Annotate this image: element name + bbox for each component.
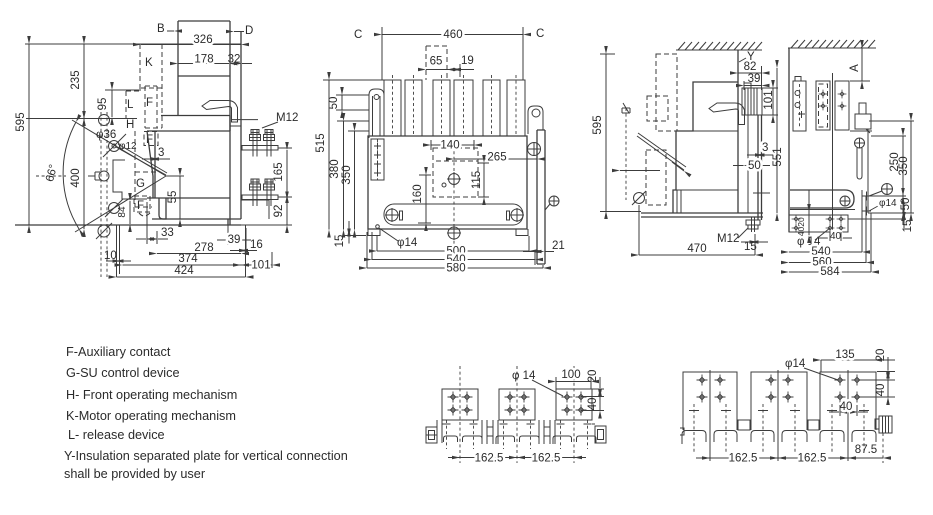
dim 39 [744, 85, 762, 87]
svg-text:162.5: 162.5 [475, 453, 504, 465]
support arm [790, 190, 854, 208]
svg-text:584: 584 [820, 266, 840, 278]
dim 15 [903, 204, 905, 212]
svg-text:326: 326 [193, 34, 212, 46]
handle [202, 101, 238, 123]
svg-text:40: 40 [830, 231, 842, 242]
svg-text:H- Front operating mechanism: H- Front operating mechanism [66, 388, 237, 402]
svg-text:20: 20 [587, 370, 599, 383]
svg-text:101: 101 [251, 260, 270, 272]
svg-text:115: 115 [471, 171, 483, 189]
right mid bolt [549, 196, 559, 206]
center line vertical [453, 140, 455, 246]
left accessory bracket [371, 139, 384, 180]
staple centerlines [694, 404, 864, 452]
label F lower dashed [134, 196, 150, 212]
svg-text:20: 20 [875, 349, 887, 362]
right bolt group [882, 184, 893, 195]
feet [368, 229, 528, 236]
terminal fin 1 [384, 80, 401, 136]
fin centerlines [393, 75, 517, 136]
body outline [368, 136, 527, 229]
center hole [449, 174, 460, 185]
dim 40 holes [829, 411, 839, 413]
hole column centerlines [447, 420, 588, 449]
svg-text:K-Motor operating mechanism: K-Motor operating mechanism [66, 409, 236, 423]
label G dashed [135, 131, 157, 207]
svg-text:595: 595 [592, 115, 604, 134]
svg-text:L: L [127, 99, 134, 111]
svg-text:A: A [849, 64, 861, 72]
top bracket [859, 103, 866, 114]
left end piece [680, 428, 684, 435]
left end post [437, 420, 442, 443]
svg-text:G: G [136, 178, 145, 190]
dim 326 [141, 44, 241, 46]
dashed connector box 65 [426, 46, 447, 80]
dashed screw column [625, 108, 627, 200]
top mounting line [26, 118, 137, 120]
svg-text:F-Auxiliary contact: F-Auxiliary contact [66, 345, 171, 359]
right lifting bracket [528, 106, 543, 134]
tab 3 [556, 389, 592, 420]
front column [161, 21, 241, 225]
svg-text:B: B [157, 23, 165, 35]
body outline [147, 116, 230, 220]
dim 400 [83, 119, 85, 229]
dim 3 plate [747, 154, 757, 156]
svg-text:φ14: φ14 [879, 198, 897, 209]
top extension line [25, 43, 241, 45]
svg-text:162.5: 162.5 [798, 453, 827, 465]
svg-text:235: 235 [70, 70, 82, 89]
dashed box L [126, 88, 162, 118]
svg-text:424: 424 [174, 265, 194, 277]
svg-text:50: 50 [900, 198, 912, 211]
dim 515 [328, 80, 330, 230]
slot left bolt [386, 209, 398, 221]
dim 250 [902, 136, 904, 196]
rear lower block [241, 200, 269, 219]
dim 178 [178, 63, 230, 65]
slot right bolt [511, 209, 523, 221]
pole centerlines [710, 370, 848, 461]
svg-text:265: 265 [487, 152, 506, 164]
dim 87.5 [848, 457, 883, 459]
svg-text:50: 50 [748, 160, 761, 172]
svg-text:φ14: φ14 [397, 237, 418, 249]
svg-text:40: 40 [796, 227, 806, 237]
svg-text:101: 101 [763, 90, 775, 109]
dashed box K [140, 44, 162, 128]
dim 40 [599, 397, 601, 411]
svg-text:L- release device: L- release device [68, 428, 165, 442]
svg-text:65: 65 [430, 56, 443, 68]
terminal fin 6 [507, 80, 525, 136]
svg-text:135: 135 [835, 349, 854, 361]
dim 165 [286, 150, 288, 195]
ceiling hatch [676, 49, 762, 51]
M12 bolt bottom [752, 217, 755, 232]
svg-text:374: 374 [178, 253, 198, 265]
svg-text:470: 470 [687, 243, 706, 255]
svg-text:3: 3 [158, 147, 164, 159]
top right mounting bolt [528, 143, 541, 156]
svg-text:M12: M12 [717, 233, 739, 245]
svg-text:55: 55 [167, 191, 179, 204]
dim 50 [341, 95, 343, 110]
dim 101 [772, 88, 774, 115]
bolts M12 [250, 130, 261, 157]
svg-text:162.5: 162.5 [532, 453, 561, 465]
svg-text:100: 100 [561, 369, 580, 381]
svg-text:D: D [245, 25, 253, 37]
dashed release box [646, 150, 666, 205]
dim 580 [367, 267, 543, 269]
svg-text:K: K [145, 57, 153, 69]
dim 278 [157, 253, 241, 255]
svg-text:33: 33 [161, 227, 174, 239]
plate mid bolt [88, 172, 101, 180]
body top [673, 82, 738, 213]
dim 470 [639, 254, 755, 256]
dim 50 [902, 196, 904, 213]
svg-text:350: 350 [341, 165, 353, 184]
terminal fin 3 [433, 80, 450, 136]
dim 460 [382, 34, 523, 36]
svg-text:15: 15 [334, 235, 346, 248]
svg-text:16: 16 [250, 239, 263, 251]
dim 162.5 left [460, 457, 517, 459]
dim 584 [789, 271, 871, 273]
svg-text:H: H [126, 119, 134, 131]
svg-text:87.5: 87.5 [855, 444, 877, 456]
terminal fin 2 [405, 80, 422, 136]
busbar column 1 [793, 81, 806, 131]
right end cap [592, 423, 595, 425]
bottom terminal block [789, 215, 848, 232]
rear terminal bars [242, 146, 278, 151]
svg-text:shall be provided by user: shall be provided by user [64, 467, 206, 481]
right plate [537, 130, 545, 264]
dim 560 [789, 262, 866, 264]
dim 21 [523, 251, 534, 253]
dim 135 [821, 359, 874, 361]
svg-text:515: 515 [315, 133, 327, 152]
svg-text:40: 40 [875, 384, 887, 397]
connector posts T1-T2 [482, 420, 498, 444]
bottom center bolt [448, 227, 460, 239]
svg-text:92: 92 [273, 205, 285, 218]
dim 424 [117, 276, 246, 278]
body base [15, 219, 241, 225]
connector bridges [738, 420, 750, 430]
dim 595 [605, 54, 607, 211]
dim 84 [129, 201, 131, 224]
dim 10 [106, 260, 116, 262]
ceiling hatch [788, 47, 876, 49]
bottom slot [384, 204, 523, 225]
svg-text:40: 40 [840, 401, 853, 413]
svg-text:φ36: φ36 [96, 129, 116, 141]
dim 162.5 right [778, 457, 848, 459]
centerline mid [36, 175, 66, 177]
svg-text:160: 160 [412, 184, 424, 203]
dims 20 40 in block [808, 212, 810, 235]
dim 20 [599, 377, 601, 388]
svg-text:580: 580 [446, 263, 465, 275]
section line C left [381, 27, 383, 80]
svg-text:M12: M12 [276, 112, 298, 124]
slot with bolt [855, 138, 865, 148]
angle arc 66 [63, 122, 79, 229]
dim 162.5 left [710, 457, 778, 459]
dim 540 [789, 251, 862, 253]
dim 265 [454, 158, 537, 160]
svg-text:15: 15 [902, 220, 914, 233]
svg-text:F: F [146, 97, 153, 109]
svg-text:400: 400 [70, 168, 82, 187]
svg-text:3: 3 [762, 142, 768, 154]
dim 20 right [887, 357, 889, 371]
dim 115 [483, 163, 485, 197]
extension lines [848, 121, 914, 219]
dim 540 [372, 259, 535, 261]
dim 33 [136, 238, 146, 240]
busbar column 3 [835, 81, 849, 130]
tab 3 [820, 372, 876, 430]
dashed box F upper [145, 86, 162, 128]
tab 1 [683, 372, 737, 430]
dim 39 [217, 239, 227, 241]
separation plate [758, 115, 762, 220]
dim 350 [354, 131, 356, 230]
dim 15 bottom [741, 241, 751, 243]
dim 595 left [28, 44, 30, 225]
dim 500 [377, 250, 529, 252]
svg-text:95: 95 [97, 98, 109, 111]
wall line [737, 50, 739, 213]
slashed circle [634, 193, 645, 204]
svg-text:165: 165 [273, 162, 285, 181]
plate top hole [99, 115, 110, 126]
svg-text:39: 39 [228, 234, 241, 246]
svg-text:40: 40 [587, 398, 599, 411]
dim 551 [776, 68, 778, 213]
dim 235 [83, 44, 85, 118]
svg-text:162.5: 162.5 [729, 453, 758, 465]
svg-text:50: 50 [328, 97, 340, 110]
plate bottom hole [98, 225, 110, 237]
tab centerlines [460, 366, 574, 463]
terminal fin 5 [483, 80, 500, 136]
dashed motor box [656, 54, 677, 131]
tab 1 [442, 389, 478, 420]
dim 140 [431, 144, 474, 146]
base staples [682, 431, 706, 445]
dim 160 [425, 175, 427, 223]
svg-text:84: 84 [117, 206, 128, 218]
svg-text:Y-Insulation separated plate f: Y-Insulation separated plate for vertica… [64, 449, 348, 463]
connector posts T2-T3 [539, 420, 555, 444]
right end cap [879, 416, 892, 433]
busbar column 2 [816, 81, 830, 130]
svg-text:380: 380 [329, 159, 341, 178]
dim A [861, 48, 863, 81]
svg-text:178: 178 [194, 54, 213, 66]
svg-text:82: 82 [744, 61, 757, 73]
svg-text:140: 140 [440, 140, 459, 152]
svg-text:21: 21 [552, 240, 565, 252]
mounting plate dashed [101, 112, 107, 277]
svg-text:C: C [354, 29, 362, 41]
dim 40 below block [819, 237, 829, 239]
svg-text:C: C [536, 28, 544, 40]
svg-text:F: F [137, 200, 144, 212]
dim 92 [286, 200, 288, 226]
tab 2 [751, 372, 807, 430]
front step profile [113, 160, 147, 199]
tab 2 [499, 389, 535, 420]
dim 100 [556, 381, 591, 383]
svg-text:20: 20 [796, 217, 806, 227]
svg-text:10: 10 [104, 250, 117, 262]
svg-text:φ14: φ14 [785, 358, 806, 370]
terminal fin 4 [454, 80, 473, 136]
phi14 leader [376, 225, 380, 229]
center dashed box [433, 148, 478, 197]
dim 82 [738, 72, 762, 74]
label F mid box [144, 132, 158, 146]
svg-text:19: 19 [461, 55, 474, 67]
linkage rod [116, 144, 167, 175]
dim 50 wall [733, 165, 744, 167]
dim 15 [348, 221, 350, 229]
svg-text:551: 551 [772, 147, 784, 166]
dim 19 [445, 69, 453, 71]
wall line [788, 48, 790, 232]
dim 162.5 right [517, 457, 574, 459]
base edge segments with feet [444, 436, 458, 442]
dim 101 [241, 264, 272, 266]
dim 55 [166, 175, 184, 177]
dim 95 [111, 90, 113, 117]
dim 374 [123, 264, 242, 266]
svg-text:350: 350 [898, 156, 910, 175]
base plate [641, 213, 763, 217]
dim 350 [910, 121, 912, 213]
dim 16 [230, 250, 240, 252]
angle rays [72, 120, 166, 232]
svg-text:460: 460 [443, 29, 462, 41]
left end cap [426, 427, 437, 443]
dim 40 right [887, 380, 889, 397]
svg-text:G-SU control device: G-SU control device [66, 366, 180, 380]
hole phi36 [109, 141, 120, 152]
dim 65 [426, 69, 447, 71]
dim 3 front [142, 158, 151, 160]
vertical busbar block [742, 88, 762, 115]
svg-text:595: 595 [15, 112, 27, 131]
lower pivot hole [109, 203, 120, 214]
dim 380 [343, 121, 345, 230]
centerline [832, 73, 834, 237]
left lifting bracket [369, 89, 384, 138]
section line C right [522, 27, 524, 80]
diagonal support arm [637, 133, 686, 170]
handle [709, 103, 745, 125]
